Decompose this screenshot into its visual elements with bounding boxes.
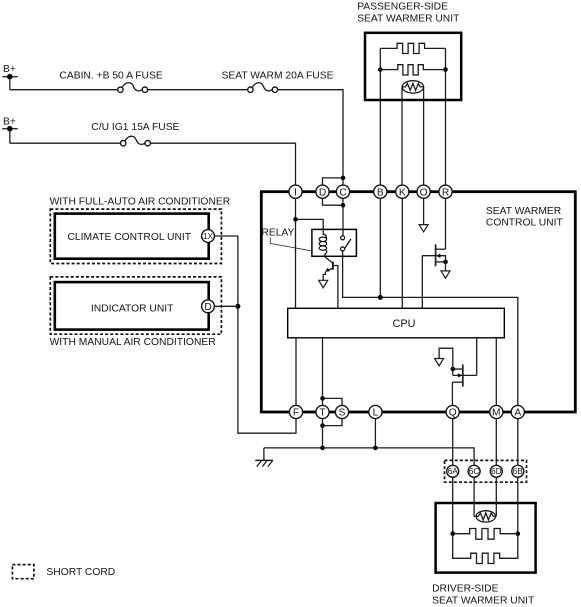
svg-text:SHORT CORD: SHORT CORD <box>46 567 115 578</box>
gate riser to CPU <box>476 338 478 376</box>
ground bus <box>264 448 474 466</box>
wire: relay switch to A terminal <box>343 251 518 406</box>
terminal 6A <box>447 465 459 477</box>
MOSFET U3 (driver heater driver) <box>435 338 477 406</box>
terminal 6C <box>468 465 480 477</box>
wire: passenger unit left stub <box>379 48 381 69</box>
svg-text:6B: 6B <box>513 467 524 476</box>
svg-text:WITH MANUAL AIR CONDITIONER: WITH MANUAL AIR CONDITIONER <box>50 337 216 348</box>
svg-text:CLIMATE CONTROL UNIT: CLIMATE CONTROL UNIT <box>68 232 192 243</box>
wire: D to riser <box>214 305 238 307</box>
terminal C <box>336 185 349 198</box>
source drop <box>445 262 447 271</box>
fuse C/U IG1 15A FUSE <box>91 122 179 146</box>
svg-text:D: D <box>319 187 326 198</box>
terminal L <box>369 405 382 418</box>
junction B heater feed <box>378 295 383 300</box>
svg-text:CABIN. +B 50 A FUSE: CABIN. +B 50 A FUSE <box>59 71 162 82</box>
fuse CABIN. +B 50 A FUSE <box>59 71 162 93</box>
svg-text:C: C <box>339 187 346 198</box>
svg-text:6C: 6C <box>469 467 480 476</box>
svg-text:CONTROL UNIT: CONTROL UNIT <box>486 218 564 229</box>
terminal D (indicator) <box>202 300 215 313</box>
svg-text:Q: Q <box>449 408 457 419</box>
lead to ground arrow <box>439 348 453 369</box>
channel bar <box>462 364 464 386</box>
heater element (driver upper) <box>453 529 518 540</box>
wire: K terminal to CPU <box>401 198 403 308</box>
short bar D-C upper <box>323 178 344 185</box>
thermistor (driver) <box>474 511 496 522</box>
svg-text:C/U IG1 15A FUSE: C/U IG1 15A FUSE <box>91 122 179 133</box>
transistor Q1 <box>319 256 338 308</box>
svg-text:B: B <box>377 187 384 198</box>
wire: B+ to fuse C/U IG1 <box>10 142 121 144</box>
fuse SEAT WARM 20A FUSE <box>222 71 334 93</box>
CPU U2 <box>288 308 505 338</box>
terminal K <box>396 185 409 198</box>
wire: R terminal to MOSFET drain <box>445 198 447 249</box>
wire: R terminal riser <box>445 70 447 186</box>
junction driver left <box>450 531 455 536</box>
wire: F to climate/indicator return <box>238 236 296 433</box>
relay K1 <box>312 229 357 256</box>
wire: T below to ground bus <box>322 419 324 448</box>
drain lead <box>452 381 462 383</box>
wire: O terminal stub <box>423 198 425 224</box>
junction passenger right <box>443 67 448 72</box>
wire: K thermistor lead <box>401 87 403 185</box>
svg-text:INDICATOR UNIT: INDICATOR UNIT <box>91 303 174 314</box>
climate control unit dashed box (short cord) <box>50 209 221 263</box>
svg-text:PASSENGER-SIDE: PASSENGER-SIDE <box>357 2 448 13</box>
junction driver right <box>516 531 521 536</box>
svg-text:CPU: CPU <box>393 318 416 330</box>
wire: O thermistor lead <box>423 87 425 185</box>
thermistor (passenger) <box>402 81 424 93</box>
svg-text:1X: 1X <box>203 232 214 241</box>
collector from coil <box>324 256 333 263</box>
svg-text:SEAT WARMER UNIT: SEAT WARMER UNIT <box>432 595 535 606</box>
wire: passenger unit right stub <box>445 48 447 69</box>
drain lead <box>436 248 446 250</box>
passenger-side seat warmer unit box <box>365 33 461 100</box>
short bar T-S lower <box>323 419 343 426</box>
ground arrow U1 source <box>441 271 450 278</box>
svg-text:B+: B+ <box>3 116 16 127</box>
terminal S <box>335 405 348 418</box>
wire: 6B into driver unit <box>517 477 519 534</box>
drain drop to Q <box>451 382 453 405</box>
svg-text:D: D <box>204 302 211 313</box>
terminal F <box>289 405 302 418</box>
svg-text:T: T <box>319 408 325 419</box>
indicator unit dashed box (short cord) <box>50 277 221 334</box>
svg-text:B+: B+ <box>3 64 16 75</box>
svg-text:SEAT WARMER: SEAT WARMER <box>486 206 561 217</box>
terminal D <box>316 185 329 198</box>
heater element (passenger upper) <box>380 43 445 53</box>
terminal B <box>374 185 387 198</box>
terminal Q <box>446 405 459 418</box>
terminal 6B <box>512 465 524 477</box>
svg-text:6D: 6D <box>491 467 502 476</box>
svg-text:SEAT WARM 20A FUSE: SEAT WARM 20A FUSE <box>222 71 334 82</box>
relay switch blade <box>344 239 351 249</box>
relay coil <box>323 230 326 239</box>
wire: L below to ground bus <box>374 419 376 448</box>
node B+ (lower battery feed) <box>2 116 17 143</box>
svg-text:O: O <box>420 187 428 198</box>
ground symbol <box>255 448 273 467</box>
terminal R <box>439 185 452 198</box>
MOSFET U1 (passenger heater driver) <box>422 244 450 308</box>
gate lead with arrow <box>453 369 477 375</box>
relay leader line <box>270 238 312 251</box>
svg-text:I: I <box>294 187 297 198</box>
terminal A <box>511 405 524 418</box>
terminal T <box>316 405 329 418</box>
wire: C terminal to relay switch <box>342 198 344 236</box>
svg-text:R: R <box>442 187 449 198</box>
wire: B terminal riser <box>379 70 381 186</box>
wire: CPU to M <box>495 338 497 406</box>
junction passenger left <box>378 67 383 72</box>
base bar <box>332 262 334 270</box>
gate riser to CPU <box>421 256 423 309</box>
connector dashed box (short cord) <box>445 460 527 482</box>
wire: fuse to terminal I <box>150 143 295 185</box>
svg-text:A: A <box>514 408 521 419</box>
relay switch contacts <box>341 236 345 240</box>
wire: fuse to terminal C <box>278 90 343 186</box>
junction indicator D <box>235 304 240 309</box>
heater element (driver lower) <box>453 534 518 564</box>
wire: CPU to F <box>295 338 297 406</box>
terminal 6D <box>490 465 502 477</box>
ground arrow U3 <box>435 359 444 366</box>
source lead <box>436 261 446 263</box>
wire: 6D thermistor lead <box>495 477 497 517</box>
svg-text:L: L <box>373 408 379 419</box>
climate control unit box <box>55 214 209 259</box>
wire: CPU to T <box>322 338 324 406</box>
wire: fuse to fuse <box>148 89 248 91</box>
channel bar <box>435 244 437 266</box>
upper lead <box>453 368 463 370</box>
wire: M to 6D <box>495 419 497 466</box>
wire: I terminal to CPU <box>295 198 297 308</box>
indicator unit box <box>55 282 209 330</box>
wire: B+ to fuse CABIN +B <box>10 89 118 91</box>
gate lead with arrow <box>422 256 445 262</box>
legend short cord box <box>12 565 34 579</box>
wire: Q to 6A <box>452 419 454 466</box>
wire: B terminal to junction <box>379 198 381 297</box>
svg-text:M: M <box>492 408 501 419</box>
wire: relay coil feed <box>296 219 324 229</box>
ground arrow O <box>419 225 428 232</box>
terminal 1X <box>202 230 215 243</box>
svg-text:K: K <box>399 187 406 198</box>
junction relay feed <box>293 217 298 222</box>
seat warmer control unit box <box>261 192 575 412</box>
svg-text:RELAY: RELAY <box>261 228 294 239</box>
terminal I <box>289 185 302 198</box>
emitter with arrow <box>328 268 333 271</box>
wire: 6A into driver unit <box>452 477 454 534</box>
wire: 1X to riser <box>214 235 238 237</box>
svg-text:F: F <box>293 408 299 419</box>
svg-text:WITH FULL-AUTO AIR CONDITIONER: WITH FULL-AUTO AIR CONDITIONER <box>50 197 231 208</box>
driver-side seat warmer unit box <box>436 503 536 573</box>
terminal O <box>417 185 430 198</box>
terminal M <box>490 405 503 418</box>
wire: A to 6B <box>517 419 519 466</box>
svg-text:SEAT WARMER UNIT: SEAT WARMER UNIT <box>357 14 460 25</box>
svg-text:S: S <box>339 408 346 419</box>
heater element (passenger lower) <box>380 65 445 75</box>
short bar T-S upper <box>323 398 343 405</box>
svg-text:DRIVER-SIDE: DRIVER-SIDE <box>432 583 498 594</box>
svg-text:6A: 6A <box>448 467 459 476</box>
wire: 6C thermistor lead <box>473 477 475 517</box>
node B+ (top battery feed) <box>2 64 17 90</box>
ground arrow Q1 emitter <box>319 280 328 288</box>
short bar D-C lower <box>323 198 344 205</box>
base lead to CPU <box>333 266 338 309</box>
